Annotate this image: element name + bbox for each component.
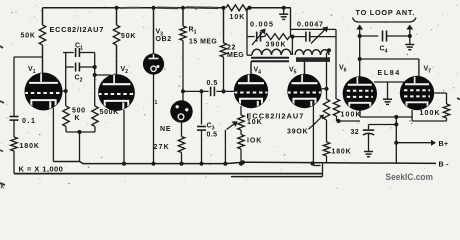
svg-text:50K: 50K bbox=[21, 33, 36, 40]
svg-text:IOK: IOK bbox=[247, 137, 262, 144]
svg-text:39OK: 39OK bbox=[287, 129, 309, 136]
svg-text:0.005: 0.005 bbox=[250, 19, 274, 28]
svg-text:500: 500 bbox=[72, 108, 86, 115]
svg-text:ECC82/I2AU7: ECC82/I2AU7 bbox=[50, 25, 105, 34]
svg-text:EL84: EL84 bbox=[378, 69, 401, 77]
svg-text:K: K bbox=[75, 115, 80, 122]
svg-text:10K: 10K bbox=[247, 119, 263, 126]
svg-text:0.0047: 0.0047 bbox=[297, 19, 324, 28]
svg-text:22: 22 bbox=[227, 45, 236, 52]
svg-text:B -: B - bbox=[439, 160, 450, 169]
svg-text:K: K bbox=[1, 185, 5, 190]
svg-text:180K: 180K bbox=[332, 149, 352, 156]
svg-text:0.1: 0.1 bbox=[22, 116, 37, 125]
svg-text:27K: 27K bbox=[154, 144, 170, 151]
svg-text:100K: 100K bbox=[420, 110, 441, 117]
svg-text:0.5: 0.5 bbox=[207, 132, 218, 139]
svg-text:TO LOOP ANT.: TO LOOP ANT. bbox=[356, 8, 416, 17]
svg-text:SeekIC.com: SeekIC.com bbox=[386, 172, 434, 183]
svg-text:B+: B+ bbox=[439, 139, 449, 148]
svg-text:NE: NE bbox=[160, 126, 171, 133]
svg-text:100K: 100K bbox=[341, 111, 362, 118]
svg-text:390K: 390K bbox=[266, 42, 287, 49]
svg-text:10K: 10K bbox=[230, 14, 246, 21]
svg-text:15 MEG: 15 MEG bbox=[189, 39, 217, 46]
svg-text:32: 32 bbox=[351, 129, 360, 136]
svg-text:MEG: MEG bbox=[227, 52, 244, 59]
svg-text:OB2: OB2 bbox=[156, 36, 172, 43]
svg-text:K = X 1,000: K = X 1,000 bbox=[19, 164, 64, 173]
svg-text:50K: 50K bbox=[121, 33, 136, 40]
svg-text:0.5: 0.5 bbox=[207, 80, 218, 87]
svg-text:180K: 180K bbox=[20, 143, 40, 150]
